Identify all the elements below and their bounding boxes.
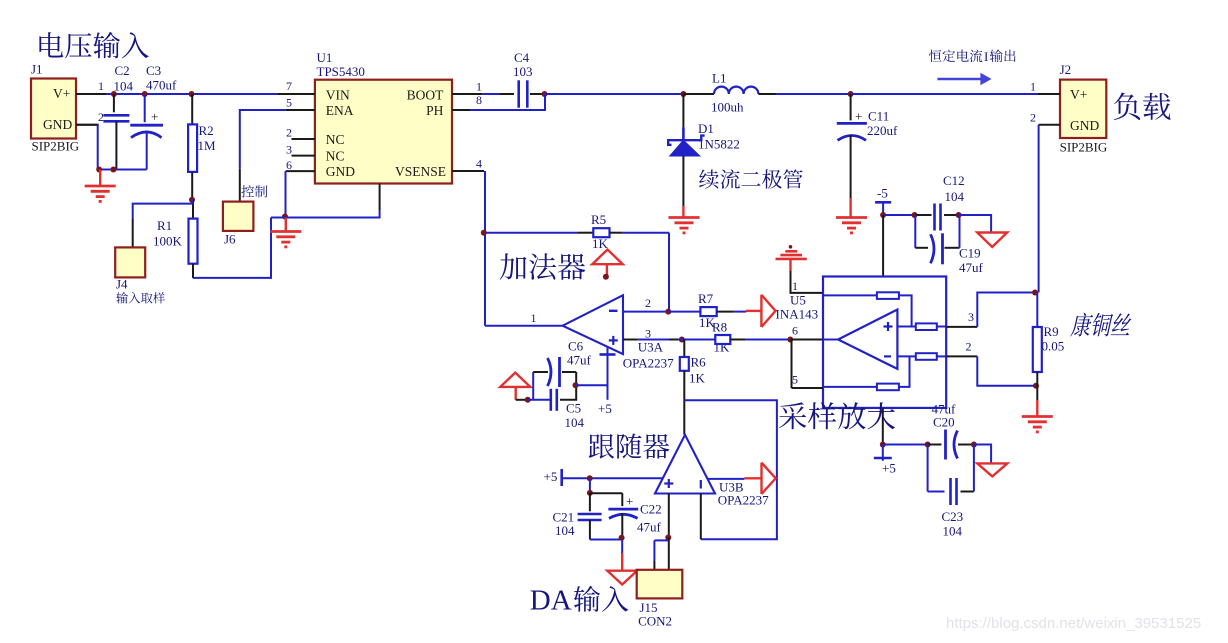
svg-text:V+: V+ [53, 86, 70, 101]
wire gnd bus under J1 [76, 124, 98, 126]
svg-text:SIP2BIG: SIP2BIG [32, 139, 80, 154]
svg-text:BOOT: BOOT [407, 88, 445, 103]
wire +5 to loop [576, 384, 608, 386]
svg-text:C19: C19 [959, 246, 981, 261]
svg-text:1N5822: 1N5822 [698, 137, 740, 152]
svg-text:47uf: 47uf [959, 260, 984, 275]
ground (input) [99, 170, 101, 187]
connector J15 [637, 570, 683, 599]
svg-text:+: + [626, 494, 633, 509]
wire to down arrow (C20) [974, 445, 991, 464]
wire U3B feedback [684, 400, 777, 539]
svg-text:C11: C11 [868, 109, 889, 124]
svg-text:5: 5 [792, 373, 798, 387]
svg-text:R9: R9 [1044, 324, 1059, 339]
svg-text:3: 3 [286, 143, 292, 157]
svg-text:104: 104 [565, 415, 585, 430]
wire J1 pin2 stub [76, 124, 99, 126]
svg-text:U5: U5 [790, 293, 806, 308]
svg-text:100K: 100K [153, 234, 183, 249]
wire J15 second lead [654, 539, 668, 541]
wire J1 pin1 stub [76, 93, 106, 95]
connector J4 [115, 247, 145, 277]
label: constantan wire [1070, 313, 1134, 337]
svg-text:C4: C4 [514, 50, 530, 65]
wire J2 pin2 [1039, 124, 1060, 126]
svg-text:C12: C12 [943, 173, 965, 188]
svg-text:C5: C5 [566, 401, 581, 416]
output arrow [937, 78, 983, 81]
wire to J4 [133, 200, 192, 219]
svg-text:1: 1 [1030, 80, 1036, 94]
label: follower [589, 433, 670, 458]
svg-text:VSENSE: VSENSE [395, 164, 446, 179]
svg-text:NC: NC [326, 149, 345, 164]
svg-text:1: 1 [792, 279, 798, 293]
svg-text:1: 1 [98, 79, 104, 93]
svg-text:-5: -5 [877, 186, 888, 201]
svg-text:7: 7 [286, 79, 292, 93]
svg-text:C20: C20 [933, 415, 955, 430]
svg-text:6: 6 [792, 324, 798, 338]
svg-text:J4: J4 [116, 277, 128, 292]
U5 internal resistors and wires [877, 292, 899, 299]
svg-text:ENA: ENA [326, 103, 354, 118]
svg-text:R6: R6 [691, 355, 707, 370]
wire +5 decoupling net [883, 444, 928, 446]
label: freewheeling diode [699, 169, 803, 189]
wire C12/C19 loop [914, 215, 916, 248]
svg-text:2: 2 [645, 296, 651, 310]
power ground bars (U5 pin1) [789, 245, 793, 249]
svg-text:220uf: 220uf [867, 123, 898, 138]
wire C5/C6 loop [532, 372, 534, 400]
svg-text:47uf: 47uf [637, 520, 662, 535]
svg-text:100uh: 100uh [711, 100, 744, 115]
wire input rail [106, 93, 278, 95]
ground (C11) [849, 198, 851, 218]
svg-text:TPS5430: TPS5430 [317, 64, 365, 79]
wire U5 V+ pin [882, 408, 884, 445]
label: load title [1114, 92, 1171, 120]
svg-text:C23: C23 [942, 509, 964, 524]
power down arrow (C20) [977, 463, 1007, 476]
ground (R9) [1036, 386, 1038, 400]
label: sampling amplifier [779, 402, 895, 429]
label: input sampling [116, 292, 165, 303]
svg-text:INA143: INA143 [776, 307, 819, 322]
wire U3B + input to J15 [668, 494, 670, 537]
wire switch rail [545, 93, 683, 95]
svg-text:+5: +5 [598, 401, 612, 416]
svg-text:J6: J6 [224, 232, 236, 247]
ground (D1) [682, 206, 684, 218]
wire U1 GND pin down [285, 171, 287, 217]
svg-text:GND: GND [1070, 118, 1099, 133]
svg-text:1: 1 [531, 311, 537, 325]
label: control [241, 185, 267, 197]
svg-text:NC: NC [326, 132, 345, 147]
power arrow (adder) [592, 250, 623, 265]
op-amp U3A [563, 295, 623, 354]
connector J6 [223, 202, 254, 231]
svg-text:OPA2237: OPA2237 [718, 493, 769, 508]
svg-text:R1: R1 [157, 218, 172, 233]
svg-text:+: + [855, 109, 862, 124]
svg-text:R2: R2 [199, 123, 214, 138]
svg-text:L1: L1 [712, 71, 726, 86]
label: voltage input title [39, 32, 148, 58]
wire BOOT net [452, 93, 482, 95]
svg-text:+5: +5 [544, 469, 558, 484]
svg-text:104: 104 [945, 189, 965, 204]
svg-text:U1: U1 [317, 50, 333, 65]
off-page arrow (to INA143) [746, 310, 761, 312]
svg-text:R8: R8 [712, 320, 727, 335]
op-amp U3B [655, 435, 715, 494]
svg-text:8: 8 [476, 93, 482, 107]
svg-text:D1: D1 [698, 121, 714, 136]
svg-text:6: 6 [286, 158, 292, 172]
svg-text:R7: R7 [698, 291, 714, 306]
svg-text:GND: GND [43, 117, 72, 132]
svg-text:5: 5 [286, 96, 292, 110]
svg-text:0.05: 0.05 [1042, 339, 1065, 354]
wire U3B output tap [707, 478, 744, 480]
svg-text:PH: PH [426, 103, 444, 118]
label: constant current I output [929, 49, 982, 62]
svg-text:VIN: VIN [326, 88, 350, 103]
svg-text:2: 2 [98, 110, 104, 124]
wire VSENSE net [452, 170, 484, 172]
svg-text:+: + [151, 109, 158, 124]
svg-text:U3A: U3A [638, 340, 664, 355]
svg-text:1K: 1K [689, 371, 706, 386]
svg-text:+5: +5 [882, 461, 896, 476]
power +5 (U5) [882, 445, 884, 461]
wire output rail [851, 93, 1038, 95]
svg-text:DA: DA [530, 585, 572, 617]
svg-text:470uf: 470uf [146, 78, 177, 93]
wire PH net [452, 109, 470, 111]
wire U5 pin5 [791, 340, 793, 389]
svg-text:https://blog.csdn.net/weixin_3: https://blog.csdn.net/weixin_39531525 [946, 615, 1201, 632]
wire to -5 down arrow [959, 215, 992, 233]
svg-text:2: 2 [1030, 111, 1036, 125]
svg-text:47uf: 47uf [567, 353, 592, 368]
capacitor C22 [590, 492, 622, 494]
svg-text:J2: J2 [1060, 62, 1072, 77]
svg-text:104: 104 [114, 79, 134, 94]
wire U1 pad net [379, 184, 381, 211]
wire U5 pin2 net [946, 355, 977, 357]
power arrow (C5/C6) [500, 373, 530, 387]
svg-text:C3: C3 [146, 63, 161, 78]
label: adder [500, 253, 585, 280]
wire U5 pin6 stub [790, 339, 823, 341]
wire J2 pin1 stub [1037, 93, 1060, 95]
off-page arrow (U3B out) [762, 463, 776, 494]
svg-text:J1: J1 [31, 62, 43, 77]
ground (U1) [285, 218, 287, 232]
svg-text:104: 104 [555, 523, 575, 538]
svg-text:C22: C22 [640, 502, 662, 517]
svg-text:OPA2237: OPA2237 [623, 356, 674, 371]
svg-text:3: 3 [968, 310, 974, 324]
svg-text:1M: 1M [198, 138, 217, 153]
ground arrow (C21/C22) [621, 540, 623, 554]
wire U1 pin stubs left [278, 93, 315, 95]
svg-text:R5: R5 [591, 212, 606, 227]
svg-text:C6: C6 [568, 339, 584, 354]
svg-text:3: 3 [645, 327, 651, 341]
svg-text:SIP2BIG: SIP2BIG [1060, 140, 1108, 155]
svg-text:4: 4 [476, 157, 482, 171]
svg-text:C2: C2 [115, 63, 130, 78]
svg-text:GND: GND [326, 164, 355, 179]
wire U5 pin1 [791, 271, 824, 293]
svg-text:2: 2 [966, 340, 972, 354]
power down arrow (C19) [977, 233, 1007, 248]
svg-text:I: I [984, 49, 988, 64]
wire -5 net [883, 214, 915, 216]
svg-text:104: 104 [943, 524, 963, 539]
svg-text:CON2: CON2 [638, 614, 672, 629]
wire C23 loop [927, 445, 929, 492]
svg-text:1: 1 [476, 80, 482, 94]
svg-text:V+: V+ [1070, 87, 1087, 102]
svg-text:103: 103 [513, 64, 533, 79]
wire ENA net [240, 110, 286, 169]
svg-text:2: 2 [286, 126, 292, 140]
wire U5 pin3 net [946, 326, 977, 328]
